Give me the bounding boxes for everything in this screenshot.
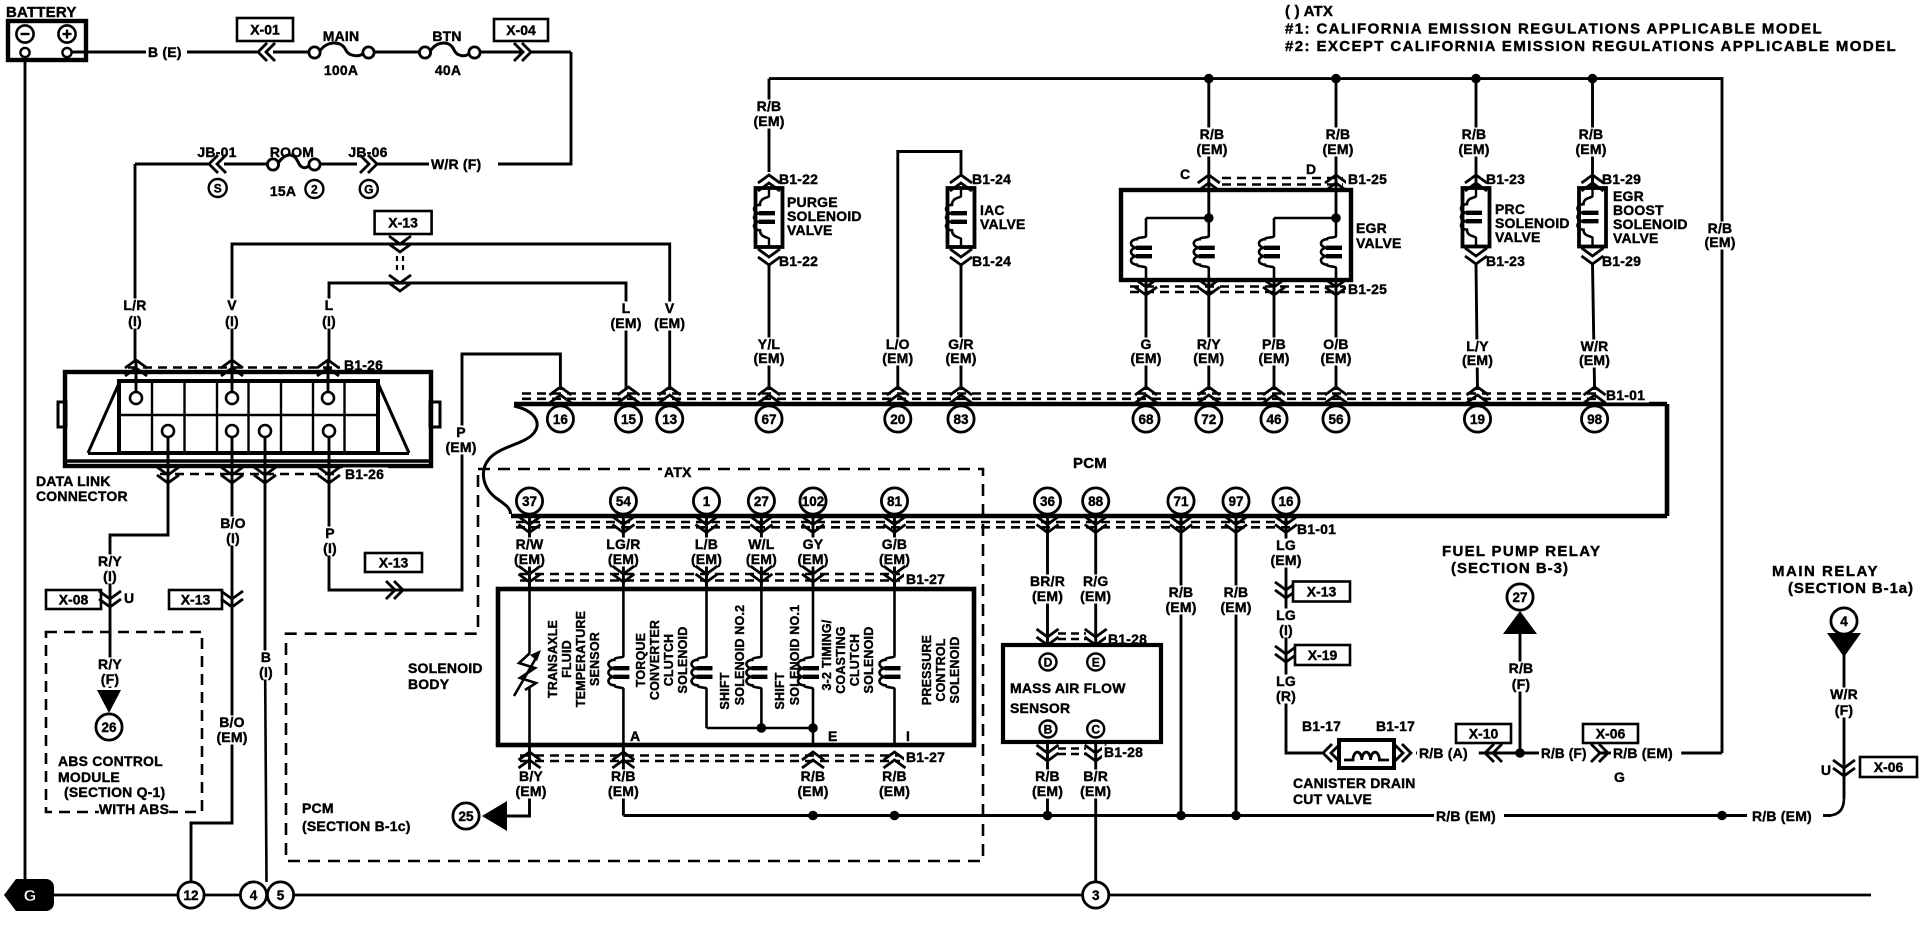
wire: LG/R PCM to solenoid body xyxy=(622,516,625,589)
svg-text:ATX: ATX xyxy=(664,464,692,480)
svg-text:(EM): (EM) xyxy=(1165,599,1196,615)
svg-text:4: 4 xyxy=(1840,614,1848,629)
svg-text:EGR: EGR xyxy=(1356,220,1387,236)
connector X-13 top xyxy=(375,211,432,234)
label G/R(EM) xyxy=(942,336,980,366)
PCM terminal 83 xyxy=(948,387,974,432)
PCM terminal 68 xyxy=(1133,387,1159,432)
svg-text:VALVE: VALVE xyxy=(1356,235,1402,251)
transaxle fluid temperature sensor xyxy=(514,589,541,745)
connector B1-27 bottom row xyxy=(519,752,906,768)
svg-text:(EM): (EM) xyxy=(1270,552,1301,568)
svg-text:X-06: X-06 xyxy=(1596,726,1626,742)
svg-text:X-13: X-13 xyxy=(379,555,409,571)
PCM terminal 72 xyxy=(1196,387,1222,432)
label R/B(F) xyxy=(1506,660,1535,692)
label MASS AIR FLOW SENSOR xyxy=(1010,680,1126,716)
connector B1-26 bottom row xyxy=(157,467,340,483)
battery xyxy=(6,4,86,60)
svg-text:46: 46 xyxy=(1266,412,1282,427)
wire: V(I) loop to PCM terminal 13 xyxy=(232,244,670,390)
wire: P(I) through X-13 to PCM 16 xyxy=(329,354,560,590)
connector X-06 fuel xyxy=(1583,724,1638,743)
svg-text:R/Y: R/Y xyxy=(98,553,122,569)
wire: R/B 97 to bus xyxy=(1235,516,1238,816)
label P/B(EM) xyxy=(1255,336,1293,366)
EGR valve xyxy=(1121,190,1351,280)
svg-text:C: C xyxy=(1091,722,1100,736)
PCM terminal 98 xyxy=(1582,387,1608,432)
svg-text:B1-27: B1-27 xyxy=(906,571,945,587)
PCM terminal 16 xyxy=(547,387,573,432)
label CANISTER DRAIN CUT VALVE xyxy=(1293,775,1416,807)
svg-text:G: G xyxy=(364,182,373,196)
svg-text:B/R: B/R xyxy=(1083,768,1108,784)
svg-text:PCM: PCM xyxy=(302,800,334,816)
svg-text:R/B: R/B xyxy=(1326,126,1351,142)
connector B1-26 top row xyxy=(125,360,340,376)
svg-text:(I): (I) xyxy=(225,313,239,329)
svg-text:SENSOR: SENSOR xyxy=(588,632,602,686)
svg-text:VALVE: VALVE xyxy=(1495,229,1541,245)
label PRC SOLENOID VALVE xyxy=(1495,201,1570,245)
ABS control module box xyxy=(46,632,202,812)
PCM terminal 15 xyxy=(615,387,641,432)
svg-text:BATTERY: BATTERY xyxy=(6,4,77,21)
PCM terminal 19 xyxy=(1464,387,1490,432)
label R/B(EM) maf xyxy=(1029,768,1067,799)
wire: LG 16 to canister valve xyxy=(1286,516,1322,753)
svg-text:W/R (F): W/R (F) xyxy=(431,156,481,172)
terminal 3 bottom xyxy=(1083,882,1109,908)
svg-text:56: 56 xyxy=(1328,412,1344,427)
svg-text:MAIN: MAIN xyxy=(323,28,360,44)
svg-text:B1-26: B1-26 xyxy=(345,466,384,482)
PCM terminal 20 xyxy=(885,387,911,432)
connector B1-01 top row xyxy=(522,394,1600,399)
svg-text:40A: 40A xyxy=(435,62,461,78)
wire: R/B(F) fuel pump relay xyxy=(1519,634,1522,753)
svg-text:(EM): (EM) xyxy=(514,551,545,567)
svg-text:16: 16 xyxy=(1278,494,1294,509)
shift solenoid no.2 xyxy=(692,589,814,728)
svg-text:LG/R: LG/R xyxy=(606,536,640,552)
svg-text:(EM): (EM) xyxy=(1458,141,1489,157)
mass air flow sensor xyxy=(1003,645,1161,742)
svg-text:(EM): (EM) xyxy=(1130,350,1161,366)
svg-text:SENSOR: SENSOR xyxy=(1010,700,1070,716)
svg-text:(R): (R) xyxy=(1276,688,1296,704)
connector X-10 xyxy=(1456,724,1511,743)
svg-text:R/B: R/B xyxy=(757,98,782,114)
label Y/L(EM) xyxy=(750,336,788,366)
svg-text:B (E): B (E) xyxy=(148,44,182,60)
svg-text:SOLENOID: SOLENOID xyxy=(862,627,876,694)
connector B1-25 bottom xyxy=(1130,279,1347,295)
svg-text:VALVE: VALVE xyxy=(980,216,1026,232)
svg-text:WITH ABS: WITH ABS xyxy=(99,801,169,817)
label R/Y(EM) xyxy=(1190,336,1228,366)
svg-text:B1-23: B1-23 xyxy=(1486,171,1525,187)
svg-text:B: B xyxy=(261,649,271,665)
svg-text:(EM): (EM) xyxy=(1575,141,1606,157)
svg-text:(I): (I) xyxy=(128,313,142,329)
label 3-2 TIMING COASTING CLUTCH SOLENOID xyxy=(820,619,876,694)
svg-text:TORQUE: TORQUE xyxy=(634,633,648,687)
svg-text:(SECTION B-1a): (SECTION B-1a) xyxy=(1788,580,1914,597)
svg-text:( ) ATX: ( ) ATX xyxy=(1285,3,1333,20)
PCM terminal 81 (bottom) xyxy=(881,488,907,533)
svg-text:CLUTCH: CLUTCH xyxy=(848,634,862,687)
svg-text:A: A xyxy=(630,728,640,744)
wire: BR/R 36 to MAF xyxy=(1046,516,1049,645)
svg-text:TEMPERATURE: TEMPERATURE xyxy=(574,611,588,707)
connector B1-28 top xyxy=(1037,629,1107,645)
PCM terminal 88 (bottom) xyxy=(1083,488,1109,533)
label R/B(EM) tcc xyxy=(605,768,643,799)
connector X-13 on B/O wire xyxy=(169,590,222,609)
connector B1-27 top row xyxy=(519,566,906,582)
svg-text:CONTROL: CONTROL xyxy=(934,638,948,701)
svg-text:36: 36 xyxy=(1040,494,1056,509)
label LG(R) xyxy=(1271,673,1300,704)
label R/Y(F) xyxy=(95,656,124,687)
label FUEL PUMP RELAY xyxy=(1442,543,1601,577)
svg-text:R/B (EM): R/B (EM) xyxy=(1436,808,1496,824)
label R/B (F) inline xyxy=(1539,746,1599,761)
label LG(EM) xyxy=(1267,537,1305,568)
label EGR VALVE xyxy=(1356,220,1402,251)
terminal 26 xyxy=(96,714,122,740)
label ABS CONTROL MODULE xyxy=(58,753,169,817)
label B/R(EM) xyxy=(1077,768,1115,799)
svg-text:R/B: R/B xyxy=(1035,768,1060,784)
wire: PRC valve feed xyxy=(1475,79,1478,188)
connector X-04 xyxy=(494,19,548,41)
svg-text:(I): (I) xyxy=(259,664,273,680)
purge solenoid valve xyxy=(754,175,783,265)
label LG(I) xyxy=(1271,607,1300,638)
svg-text:(EM): (EM) xyxy=(1462,352,1493,368)
wire: EGR valve C feed xyxy=(1207,79,1210,218)
svg-text:G: G xyxy=(24,888,36,905)
label L/R(I) xyxy=(120,297,149,329)
PCM terminal 56 xyxy=(1323,387,1349,432)
label G(EM) xyxy=(1127,336,1165,366)
svg-text:(EM): (EM) xyxy=(797,783,828,799)
svg-text:R/Y: R/Y xyxy=(98,656,122,672)
label B(E) xyxy=(148,44,182,60)
svg-text:72: 72 xyxy=(1201,412,1216,427)
svg-text:97: 97 xyxy=(1228,494,1243,509)
svg-text:(EM): (EM) xyxy=(445,439,476,455)
ATX dashed box xyxy=(286,469,983,861)
svg-text:CLUTCH: CLUTCH xyxy=(662,634,676,687)
label O/B(EM) xyxy=(1317,336,1355,366)
fuse ROOM 15A xyxy=(270,144,314,160)
label L(I) xyxy=(314,297,343,329)
terminal 12 xyxy=(178,882,204,908)
svg-text:CONNECTOR: CONNECTOR xyxy=(36,488,128,504)
connector JB-06 xyxy=(348,144,387,160)
svg-text:B1-24: B1-24 xyxy=(972,171,1011,187)
canister drain cut valve xyxy=(1323,740,1411,768)
svg-text:X-10: X-10 xyxy=(1469,726,1499,742)
svg-text:CONVERTER: CONVERTER xyxy=(648,620,662,700)
svg-text:I: I xyxy=(906,728,910,744)
svg-text:(EM): (EM) xyxy=(1704,234,1735,250)
connector X-06 main relay xyxy=(1820,762,1831,778)
svg-text:102: 102 xyxy=(802,494,825,509)
svg-text:E: E xyxy=(828,728,838,744)
label B(I) xyxy=(251,649,280,680)
wire: L(I) loop to PCM terminal 15 xyxy=(329,283,626,390)
pressure control solenoid xyxy=(880,589,901,745)
svg-text:(EM): (EM) xyxy=(1258,350,1289,366)
svg-text:PCM: PCM xyxy=(1073,455,1107,472)
wire: DLC terminal stubs xyxy=(136,362,329,466)
label GY(EM) xyxy=(794,536,832,567)
svg-text:#2: EXCEPT CALIFORNIA EMISSION: #2: EXCEPT CALIFORNIA EMISSION REGULATIO… xyxy=(1285,38,1897,55)
label R/B(EM) egr-D xyxy=(1319,126,1357,157)
label IAC VALVE xyxy=(980,202,1026,232)
label B/O(I) xyxy=(218,515,247,546)
svg-text:C: C xyxy=(1180,166,1190,182)
label W/R(F) xyxy=(431,156,481,172)
svg-text:(I): (I) xyxy=(1279,622,1293,638)
label R/B(EM) right side xyxy=(1701,220,1739,250)
svg-text:ROOM: ROOM xyxy=(270,144,314,160)
label B1-17 left xyxy=(1302,718,1341,734)
wire: L/R(I) from fuse row to DLC xyxy=(134,164,137,362)
svg-text:B1-24: B1-24 xyxy=(972,253,1011,269)
svg-text:R/W: R/W xyxy=(516,536,544,552)
svg-text:3-2 TIMING/: 3-2 TIMING/ xyxy=(820,619,834,690)
svg-text:(EM): (EM) xyxy=(879,783,910,799)
svg-text:SOLENOID: SOLENOID xyxy=(948,637,962,704)
svg-text:V: V xyxy=(665,300,675,316)
EGR boost solenoid valve xyxy=(1578,175,1606,264)
svg-text:B1-01: B1-01 xyxy=(1606,387,1645,403)
svg-text:88: 88 xyxy=(1088,494,1104,509)
svg-text:37: 37 xyxy=(522,494,537,509)
svg-text:MASS AIR FLOW: MASS AIR FLOW xyxy=(1010,680,1126,696)
note ATX california emissions xyxy=(1285,3,1897,55)
wire: battery B(E) feed top row xyxy=(71,51,146,54)
svg-text:X-13: X-13 xyxy=(388,215,418,231)
label R/Y(I) xyxy=(95,553,124,584)
svg-text:100A: 100A xyxy=(324,62,358,78)
svg-text:B/Y: B/Y xyxy=(519,768,543,784)
svg-text:MAIN RELAY: MAIN RELAY xyxy=(1772,563,1879,580)
svg-text:5: 5 xyxy=(277,888,285,903)
svg-text:MODULE: MODULE xyxy=(58,769,120,785)
wire: W/R boost to 98 xyxy=(1593,264,1595,390)
svg-text:(EM): (EM) xyxy=(1579,352,1610,368)
svg-text:83: 83 xyxy=(953,412,969,427)
wire: R/B ground bus xyxy=(622,745,625,816)
label B/Y(EM) xyxy=(512,768,550,799)
svg-text:X-13: X-13 xyxy=(181,592,211,608)
svg-text:20: 20 xyxy=(890,412,905,427)
label V(EM) xyxy=(651,300,689,331)
svg-text:(I): (I) xyxy=(323,540,337,556)
label P(EM) xyxy=(442,424,480,455)
svg-text:25: 25 xyxy=(458,809,474,824)
label R/B (EM) bus right xyxy=(1752,808,1812,824)
svg-text:98: 98 xyxy=(1587,412,1603,427)
label R/B(EM) 71 xyxy=(1162,584,1200,615)
svg-text:(EM): (EM) xyxy=(1196,141,1227,157)
label R/B(EM) boost xyxy=(1572,126,1610,157)
svg-text:(SECTION Q-1): (SECTION Q-1) xyxy=(64,784,165,800)
label R/B(EM) 3-2 xyxy=(794,768,832,799)
terminal 4 main relay xyxy=(1831,608,1857,634)
wire: EGR valve D feed xyxy=(1335,79,1338,218)
svg-text:R/B: R/B xyxy=(801,768,826,784)
label SHIFT SOLENOID NO.2 xyxy=(718,605,747,710)
svg-text:(F): (F) xyxy=(1835,702,1853,718)
svg-text:(EM): (EM) xyxy=(216,729,247,745)
svg-text:(EM): (EM) xyxy=(691,551,722,567)
wire: W/L PCM to solenoid body xyxy=(760,516,763,589)
svg-text:R/B: R/B xyxy=(882,768,907,784)
data link connector xyxy=(58,372,440,466)
terminal 4 bottom xyxy=(240,882,266,908)
svg-text:R/B: R/B xyxy=(1462,126,1487,142)
PCM terminal 46 xyxy=(1261,387,1287,432)
PCM terminal 97 (bottom) xyxy=(1223,488,1249,533)
svg-text:U: U xyxy=(124,590,134,606)
PCM terminal 36 (bottom) xyxy=(1034,488,1060,533)
PCM terminal 27 (bottom) xyxy=(748,488,774,533)
terminal 25 xyxy=(453,803,479,829)
svg-text:JB-06: JB-06 xyxy=(348,144,387,160)
svg-text:81: 81 xyxy=(887,494,903,509)
svg-text:B1-25: B1-25 xyxy=(1348,171,1387,187)
svg-text:19: 19 xyxy=(1470,412,1485,427)
svg-text:W/L: W/L xyxy=(748,536,775,552)
label R/B(EM) purge xyxy=(750,98,788,129)
label R/B (EM) inline xyxy=(1611,745,1681,761)
svg-text:(EM): (EM) xyxy=(1220,599,1251,615)
svg-text:4: 4 xyxy=(250,888,258,903)
wire: B/O to terminal 12 xyxy=(191,466,232,882)
svg-text:GY: GY xyxy=(803,536,824,552)
svg-text:L: L xyxy=(622,300,631,316)
wire: R/Y to ABS module xyxy=(110,466,168,688)
wire: canister to X-06 row xyxy=(1416,752,1722,755)
wire: L/B PCM to solenoid body xyxy=(705,516,708,589)
svg-text:B1-27: B1-27 xyxy=(906,749,945,765)
PRC solenoid valve xyxy=(1461,175,1490,264)
PCM terminal 67 xyxy=(756,387,782,432)
svg-text:1: 1 xyxy=(703,494,711,509)
svg-text:L/B: L/B xyxy=(695,536,718,552)
label PURGE SOLENOID VALVE xyxy=(787,194,862,238)
PCM terminal 37 (bottom) xyxy=(516,488,542,533)
terminal 5 bottom xyxy=(267,882,293,908)
wire: W/R(F) main relay down xyxy=(1843,634,1846,798)
svg-text:X-01: X-01 xyxy=(250,22,280,38)
svg-text:G/B: G/B xyxy=(882,536,908,552)
wire: R/W PCM to solenoid body xyxy=(528,516,531,589)
svg-text:(SECTION B-1c): (SECTION B-1c) xyxy=(302,818,411,834)
IAC valve xyxy=(946,175,975,265)
svg-text:SOLENOID: SOLENOID xyxy=(676,627,690,694)
torque converter clutch solenoid xyxy=(608,589,629,745)
svg-text:P: P xyxy=(456,424,466,440)
label R/B (A) xyxy=(1417,745,1479,761)
svg-text:#1: CALIFORNIA EMISSION REGULA: #1: CALIFORNIA EMISSION REGULATIONS APPL… xyxy=(1285,21,1823,38)
wire: B(I) to terminals 4/5 xyxy=(264,466,267,650)
svg-text:SOLENOID NO.1: SOLENOID NO.1 xyxy=(788,605,802,706)
svg-text:COASTING: COASTING xyxy=(834,626,848,694)
svg-text:R/B: R/B xyxy=(1579,126,1604,142)
svg-text:SOLENOID: SOLENOID xyxy=(408,660,483,676)
svg-text:15: 15 xyxy=(621,412,637,427)
svg-text:LG: LG xyxy=(1276,537,1296,553)
svg-text:13: 13 xyxy=(662,412,678,427)
wire: battery ground drop xyxy=(24,57,27,882)
wire: B/Y to PCM section arrow xyxy=(507,745,530,816)
wire: ROOM fuse row xyxy=(135,163,209,166)
svg-text:R/B: R/B xyxy=(1509,660,1534,676)
svg-text:(EM): (EM) xyxy=(610,315,641,331)
wire: Y/L purge to 67 xyxy=(768,265,771,390)
svg-text:P: P xyxy=(325,525,335,541)
svg-text:(EM): (EM) xyxy=(1322,141,1353,157)
wire: EGR outputs to PCM xyxy=(1146,280,1336,390)
label MAIN RELAY xyxy=(1772,563,1914,597)
PCM terminal 16 (bottom) xyxy=(1273,488,1299,533)
PCM terminal 102 (bottom) xyxy=(800,488,826,533)
arrow to PCM B-1c xyxy=(482,801,507,831)
terminal 27 fuel pump relay xyxy=(1507,584,1533,610)
label ATX xyxy=(662,464,692,480)
svg-text:R/B: R/B xyxy=(1200,126,1225,142)
svg-text:R/B (EM): R/B (EM) xyxy=(1613,745,1673,761)
label L(EM) xyxy=(607,300,645,331)
svg-text:15A: 15A xyxy=(270,183,296,199)
svg-text:B1-29: B1-29 xyxy=(1602,171,1641,187)
svg-text:B1-17: B1-17 xyxy=(1376,718,1415,734)
arrow from fuel pump relay xyxy=(1503,611,1537,634)
svg-text:(EM): (EM) xyxy=(1320,350,1351,366)
arrow from main relay xyxy=(1827,633,1861,657)
svg-text:B1-23: B1-23 xyxy=(1486,253,1525,269)
svg-text:ABS CONTROL: ABS CONTROL xyxy=(58,753,163,769)
svg-text:(EM): (EM) xyxy=(1032,783,1063,799)
label W/R(F) relay xyxy=(1829,686,1858,718)
label R/B(EM) pcs xyxy=(876,768,914,799)
svg-text:(EM): (EM) xyxy=(753,350,784,366)
svg-text:B/O: B/O xyxy=(219,714,245,730)
svg-text:3: 3 xyxy=(1092,888,1100,903)
connector B1-28 bottom xyxy=(1037,745,1107,761)
connector JB-01 xyxy=(197,144,236,160)
svg-text:(EM): (EM) xyxy=(882,350,913,366)
3-2 timing coasting clutch solenoid xyxy=(798,589,819,745)
wire: X-04 drop to W/R(F) row xyxy=(498,52,571,164)
svg-text:BR/R: BR/R xyxy=(1030,573,1065,589)
connector X-08 xyxy=(46,590,101,609)
svg-text:(F): (F) xyxy=(1512,676,1530,692)
svg-text:27: 27 xyxy=(754,494,769,509)
svg-text:2: 2 xyxy=(311,182,318,196)
svg-text:FUEL PUMP RELAY: FUEL PUMP RELAY xyxy=(1442,543,1601,560)
fuse MAIN 100A xyxy=(323,28,360,44)
